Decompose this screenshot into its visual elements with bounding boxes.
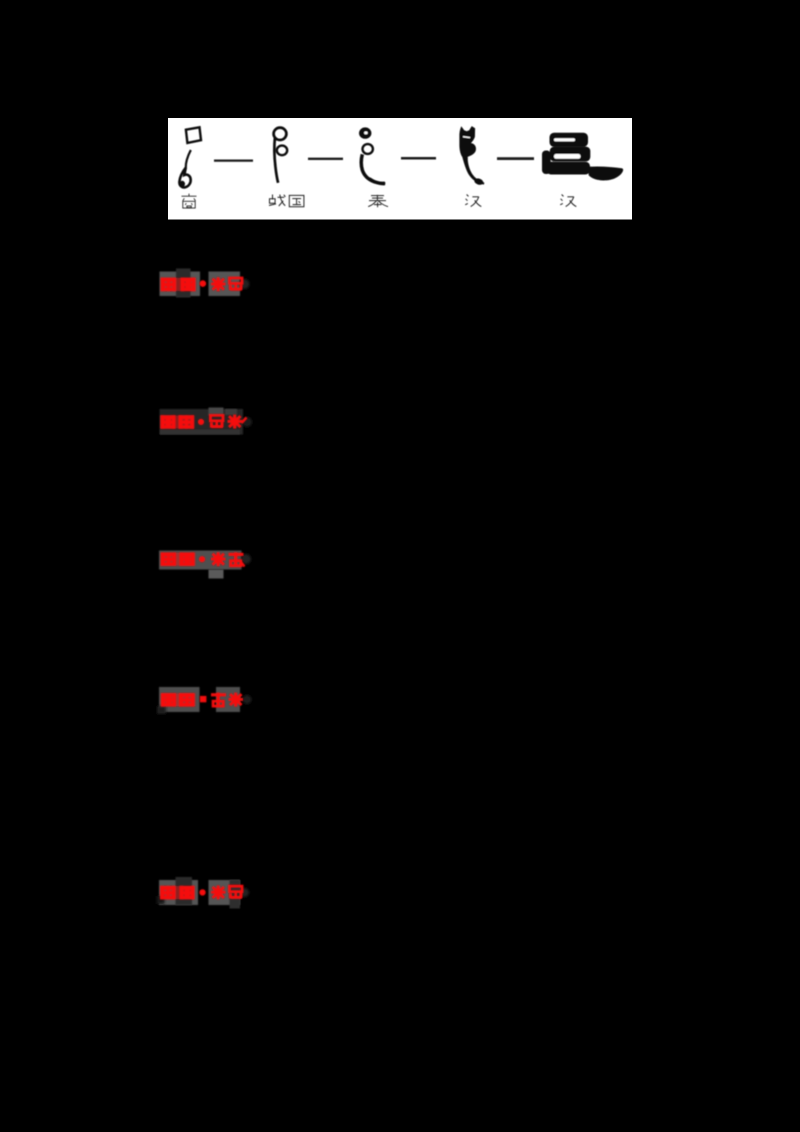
band4 dark trailing blob [243,695,252,704]
band4 gray highlight left [159,687,200,712]
band1 dark trailing blob [240,279,250,289]
label Guo (国) [289,195,304,206]
band3 dark trailing blob [241,554,251,564]
band2 dark trailing blob [242,417,252,427]
glyph 4: Han cursive form (cat-like silhouette) [459,126,484,185]
band2 bottom strip [160,430,240,435]
band3 red text [161,552,245,566]
label Han (汉) #1 [465,195,481,207]
glyph 2: Warring-States form, two rings with descender [274,128,287,140]
glyph 1 bottom loop [179,168,190,188]
band5 dark column left [176,877,193,905]
band1 gray highlight right [209,272,241,297]
dash 3 [401,157,436,160]
glyph 3: Qin small-seal form [359,127,371,138]
label Qin (秦) [368,195,388,207]
band4 gray highlight right [216,687,240,712]
band4 faint smudge [157,706,166,714]
white evolution panel [168,118,632,220]
dash 2 [308,158,343,160]
band4 red text [161,693,244,707]
dash 4 [497,157,534,160]
band5 gray highlight right [209,880,241,905]
glyph 1 body stroke [186,150,191,168]
glyph 1: oracle-bone form (Shang) square head [186,127,201,143]
band2 red text [160,415,247,429]
dash 1 [214,159,253,161]
band2 dark highlight [160,409,244,435]
band5 red text [160,885,242,899]
label Han (汉) #2 [560,195,576,207]
band3 gray highlight [159,551,242,570]
band5 faint smudge [157,896,165,904]
band2 lighter patch [209,408,224,416]
band5 gray highlight left [159,880,198,905]
band1 dark column [176,269,191,298]
label Shang (商) [182,194,197,209]
label Zhan (战) [269,195,285,207]
band3 gray tongue below [209,570,224,579]
band1 gray highlight left [160,272,201,297]
band5 dark column right [230,880,241,909]
band1 red text [161,277,243,291]
glyph 5: Han clerical bold form [542,133,623,181]
band5 dark trailing blob [240,888,249,897]
